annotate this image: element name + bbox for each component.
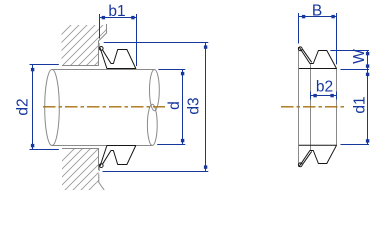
shaft break right end [147,70,159,146]
svg-text:b1: b1 [108,3,125,20]
dimension b1 [100,14,137,66]
dimension b2 [311,92,337,100]
seal silhouette lines [299,47,337,167]
svg-text:b2: b2 [316,79,333,96]
dimension d [157,70,185,145]
svg-text:d1: d1 [352,96,369,113]
housing top block outline [62,24,107,66]
svg-text:W: W [351,49,368,64]
svg-text:B: B [312,3,322,20]
centerline right view [281,106,346,108]
dimension W [330,51,369,70]
seal top installed [99,47,136,69]
seal profile bottom [298,145,336,166]
dimension d2 [30,65,59,150]
hatching housing top block [26,20,140,70]
centerline left view [43,106,165,108]
dimension d3 [103,43,209,172]
svg-text:d2: d2 [15,98,32,115]
dimension B [299,13,337,64]
seal bottom installed [99,146,136,168]
svg-text:d3: d3 [186,97,203,114]
shaft [45,70,155,146]
housing bottom block outline [62,149,104,191]
seal profile top [298,47,336,69]
hatching housing bottom block [28,135,144,195]
svg-text:d: d [166,101,183,110]
dimension d1 [341,70,370,145]
